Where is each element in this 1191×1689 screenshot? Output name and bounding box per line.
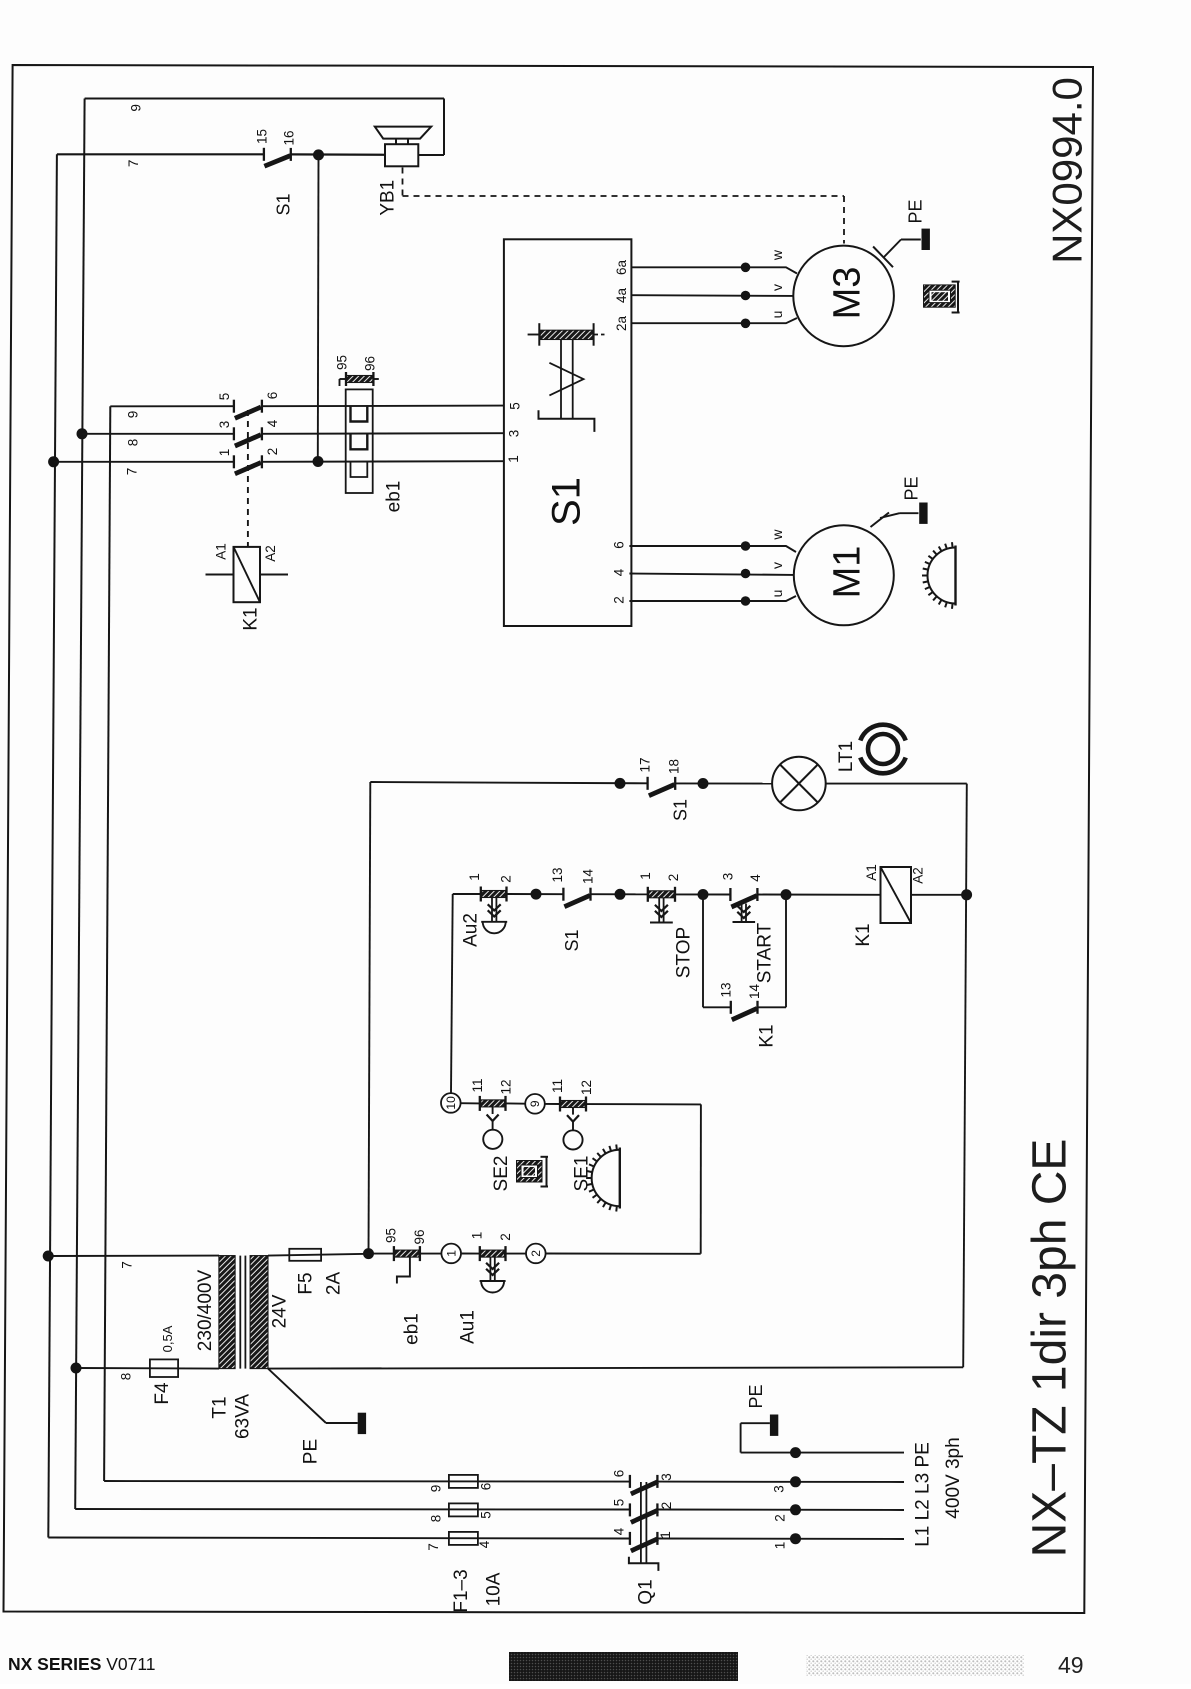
svg-text:9: 9 (129, 104, 144, 112)
wire 0V return (268, 1367, 963, 1368)
svg-text:9: 9 (528, 1100, 542, 1107)
svg-text:5: 5 (508, 402, 523, 410)
wire 9 top run (85, 98, 444, 100)
svg-text:2: 2 (498, 1233, 513, 1241)
svg-text:95: 95 (384, 1228, 399, 1243)
svg-text:2: 2 (612, 596, 627, 604)
fuse F2 (449, 1503, 478, 1516)
overload eb1 contact 95-96 (340, 378, 347, 380)
fuse F4 (150, 1359, 178, 1377)
node K1 rung b (615, 889, 626, 900)
switch S1 15/16 (263, 148, 265, 161)
wire STOP to START (675, 893, 730, 895)
svg-text:18: 18 (667, 759, 682, 774)
svg-text:F5: F5 (296, 1272, 317, 1294)
limit switch SE2 (479, 1096, 481, 1111)
wire Au1 to 2 (506, 1253, 527, 1255)
svg-text:13: 13 (719, 982, 734, 997)
svg-text:1: 1 (467, 873, 482, 881)
dashed link YB1 to brake (402, 168, 404, 197)
svg-text:YB1: YB1 (377, 180, 398, 216)
svg-text:2A: 2A (324, 1272, 345, 1296)
svg-text:L1 L2 L3 PE: L1 L2 L3 PE (913, 1442, 934, 1547)
wire 24V rail (369, 782, 371, 1254)
wire 7 to T1 (48, 1255, 219, 1257)
svg-text:2a: 2a (614, 316, 629, 332)
svg-text:9: 9 (429, 1485, 444, 1493)
svg-text:16: 16 (282, 130, 297, 145)
wire to lamp (675, 782, 772, 784)
svg-text:Au1: Au1 (458, 1310, 479, 1344)
wire 4 to M1 (629, 574, 793, 575)
svg-text:11: 11 (470, 1078, 485, 1092)
svg-text:PE: PE (901, 476, 921, 500)
svg-text:9: 9 (126, 411, 141, 419)
wire rail 8 left (75, 99, 84, 1510)
svg-text:S1: S1 (273, 193, 293, 215)
fuse F5 (289, 1249, 321, 1261)
svg-text:S1: S1 (562, 929, 582, 951)
wire right rail (963, 784, 967, 1368)
svg-text:eb1: eb1 (384, 481, 405, 513)
switch S1 17/18 (646, 777, 648, 790)
node L-PE (790, 1447, 801, 1458)
svg-text:4: 4 (477, 1540, 492, 1548)
svg-text:PE: PE (746, 1384, 766, 1408)
svg-text:NX0994.0: NX0994.0 (1044, 77, 1091, 264)
svg-text:1: 1 (638, 872, 653, 880)
svg-text:2: 2 (265, 448, 280, 456)
svg-text:12: 12 (499, 1079, 514, 1094)
svg-text:7: 7 (125, 468, 140, 476)
svg-text:96: 96 (363, 356, 378, 371)
svg-text:63VA: 63VA (233, 1394, 254, 1439)
wire rail 9 left (104, 406, 110, 1481)
svg-text:K1: K1 (853, 923, 874, 946)
svg-text:STOP: STOP (674, 927, 695, 978)
svg-text:1: 1 (773, 1542, 788, 1550)
wire 2 to M1 (629, 596, 796, 601)
wire 9 row K1 to S1box (262, 405, 504, 408)
wire 7 row K1 to S1box (262, 460, 504, 463)
wire 9 bottom b (657, 1481, 904, 1483)
node 9 (525, 1094, 545, 1114)
pushbutton START (729, 888, 731, 901)
wire 2a to M3 (631, 318, 797, 323)
PE tick M3 (873, 247, 893, 268)
svg-text:M3: M3 (826, 267, 868, 320)
svg-text:13: 13 (550, 867, 565, 882)
node wire8 F4 (71, 1363, 82, 1374)
svg-text:K1: K1 (241, 607, 262, 630)
svg-text:400V 3ph: 400V 3ph (943, 1437, 964, 1518)
brake icon SE2 (517, 1161, 543, 1183)
wire rail 7 left (48, 154, 57, 1537)
svg-text:7: 7 (126, 160, 141, 168)
svg-text:NX SERIES V0711: NX SERIES V0711 (8, 1654, 156, 1674)
svg-text:10: 10 (444, 1096, 458, 1110)
switch Q1 pole 8 (629, 1503, 631, 1516)
wire 7 top run (57, 153, 264, 155)
svg-text:PE: PE (905, 199, 925, 223)
footer watermark (806, 1655, 1024, 1676)
fuse F3 (449, 1532, 478, 1545)
contact K1 aux 13/14 (730, 1001, 732, 1014)
svg-text:1: 1 (470, 1232, 485, 1240)
svg-text:230/400V: 230/400V (195, 1269, 216, 1351)
wire lamp to rail (826, 783, 967, 785)
svg-text:1: 1 (506, 455, 521, 463)
node after F5 (363, 1248, 374, 1259)
wire 10 to SE2 (461, 1102, 480, 1104)
fuse F1 (449, 1475, 478, 1488)
svg-text:NX–TZ 1dir 3ph CE: NX–TZ 1dir 3ph CE (1023, 1139, 1076, 1558)
wire corner drop (700, 1104, 702, 1253)
PE tick M1 (871, 513, 890, 528)
wire drop to YB1 (443, 99, 445, 156)
wire S1 to STOP (591, 893, 648, 895)
contactor K1 pole 1-2 (233, 455, 235, 468)
svg-text:5: 5 (217, 393, 232, 401)
contact eb1 aux 95/96 (393, 1246, 395, 1261)
svg-text:w: w (769, 529, 785, 541)
svg-text:S1: S1 (545, 477, 589, 526)
svg-text:0,5A: 0,5A (160, 1325, 175, 1352)
svg-text:96: 96 (412, 1229, 427, 1244)
motor M3 (793, 246, 894, 347)
wire SE1 to corner (586, 1103, 701, 1105)
wire 8 to T1 (76, 1367, 219, 1370)
svg-text:17: 17 (638, 757, 653, 772)
wire 2 to corner (546, 1253, 701, 1255)
svg-text:2: 2 (659, 1502, 674, 1510)
node L3 (790, 1476, 801, 1487)
transformer T1 (219, 1256, 235, 1369)
ground T1 (358, 1413, 366, 1434)
svg-text:10A: 10A (484, 1572, 505, 1606)
lamp LT1 (772, 757, 826, 811)
node M1 u (741, 596, 751, 606)
ground M1 PE (919, 503, 927, 524)
wire K1 aux return (758, 1006, 787, 1008)
switch Q1 pole 7 (629, 1532, 631, 1545)
footer dark block (509, 1652, 738, 1681)
ground M3 PE (922, 229, 930, 250)
svg-text:8: 8 (119, 1373, 134, 1381)
wire SE2 to 9 (506, 1102, 526, 1104)
brake icon M3 (924, 285, 956, 307)
wire 9 bottom (104, 1480, 630, 1483)
wire 8 bottom b (657, 1509, 904, 1512)
switch S1 13/14 (562, 888, 564, 901)
svg-text:14: 14 (581, 869, 596, 885)
wire PE bottom (741, 1452, 904, 1454)
node M3 u (741, 319, 751, 329)
svg-text:6: 6 (612, 1470, 627, 1478)
wire center drop (317, 155, 320, 462)
node M3 v (741, 291, 751, 301)
limit switch SE1 (559, 1097, 561, 1112)
wire 7 bottom (48, 1538, 630, 1539)
svg-text:F4: F4 (152, 1382, 173, 1405)
svg-text:2: 2 (499, 875, 514, 883)
svg-text:v: v (769, 284, 785, 291)
node center drop to 7 (313, 456, 324, 467)
svg-text:11: 11 (550, 1079, 565, 1093)
wire K1 aux branch (702, 895, 704, 1008)
node 2 (526, 1244, 546, 1264)
svg-text:Au2: Au2 (461, 913, 482, 947)
svg-text:49: 49 (1058, 1652, 1084, 1678)
svg-text:4: 4 (612, 1527, 627, 1535)
svg-text:4: 4 (748, 874, 763, 882)
wire 1 to Au1 (461, 1253, 480, 1255)
cam switch symbol (528, 334, 540, 336)
svg-text:3: 3 (721, 873, 736, 881)
node lamp rung a (615, 778, 626, 789)
pushbutton Au1 (479, 1246, 481, 1261)
coil K1 control (881, 867, 912, 923)
switch Q1 pole 9 (629, 1475, 631, 1488)
node 7 rail (48, 456, 59, 467)
ground supply PE (770, 1415, 778, 1436)
svg-text:3: 3 (217, 421, 232, 429)
svg-text:7: 7 (426, 1543, 441, 1551)
svg-text:2: 2 (666, 874, 681, 882)
contactor K1 pole 3-4 (233, 427, 235, 440)
node YB1 junction (313, 149, 324, 160)
dashed K1 linkage (247, 410, 249, 547)
wire 24V from T1 (268, 1254, 369, 1256)
svg-text:1: 1 (217, 449, 232, 457)
svg-text:6a: 6a (614, 260, 629, 276)
svg-text:T1: T1 (210, 1396, 231, 1418)
wire T1 PE (268, 1369, 326, 1423)
svg-text:w: w (769, 249, 785, 261)
wire 6 to M1 (629, 546, 796, 552)
fan icon M1 (954, 546, 956, 606)
svg-text:95: 95 (335, 355, 350, 370)
overload eb1 heater box (346, 389, 373, 493)
svg-text:4: 4 (612, 568, 627, 576)
wire 6a to M3 (631, 267, 797, 273)
node 10 (441, 1093, 461, 1113)
wire S1-16 to YB1 (291, 153, 385, 156)
svg-text:Q1: Q1 (636, 1579, 657, 1604)
node K1 rung c (698, 889, 709, 900)
svg-text:SE2: SE2 (491, 1156, 512, 1192)
node L1 (790, 1533, 801, 1544)
wire to eb1 aux (369, 1253, 394, 1255)
svg-text:4: 4 (265, 419, 280, 427)
svg-text:PE: PE (301, 1439, 322, 1464)
contactor K1 pole 5-6 (233, 400, 235, 413)
svg-text:3: 3 (659, 1473, 674, 1481)
svg-text:START: START (755, 922, 776, 983)
node 1 (441, 1244, 461, 1264)
svg-text:A1: A1 (214, 543, 229, 560)
lamp indicator icon (868, 734, 898, 764)
node L2 (790, 1504, 801, 1515)
svg-text:LT1: LT1 (836, 741, 857, 772)
svg-text:K1: K1 (757, 1024, 778, 1047)
wire 7 bottom b (657, 1538, 904, 1541)
svg-text:u: u (769, 590, 785, 598)
wire 4a to M3 (631, 294, 793, 297)
switch box S1 (504, 239, 632, 626)
svg-text:3: 3 (772, 1485, 787, 1493)
svg-text:2: 2 (529, 1250, 543, 1257)
svg-text:S1: S1 (670, 799, 690, 821)
svg-text:SE1: SE1 (572, 1156, 593, 1192)
wire coil to rail (911, 894, 967, 896)
wire eb1 to 1 (420, 1253, 442, 1255)
svg-text:2: 2 (773, 1514, 788, 1522)
svg-text:15: 15 (255, 129, 270, 144)
node M1 w (741, 541, 751, 551)
svg-text:24V: 24V (270, 1294, 291, 1328)
svg-text:1: 1 (658, 1531, 673, 1539)
svg-text:4a: 4a (614, 288, 629, 304)
horn YB1 (385, 144, 418, 166)
wire 8 bottom (75, 1508, 630, 1511)
node wire7 T1 (43, 1251, 54, 1262)
node lamp rung b (698, 778, 709, 789)
wire M3 PE (884, 240, 901, 258)
wire 7 row K1 (54, 461, 234, 463)
wire 8 row K1 to S1box (262, 432, 504, 435)
svg-text:6: 6 (612, 541, 627, 549)
svg-text:8: 8 (126, 439, 141, 447)
svg-text:7: 7 (120, 1261, 135, 1269)
svg-text:14: 14 (747, 984, 762, 1000)
wire 8 row K1 (82, 433, 234, 435)
wire START to coil (757, 894, 880, 896)
node K1 rung a (531, 889, 542, 900)
svg-text:v: v (769, 562, 785, 569)
fan icon SE1 (619, 1148, 621, 1209)
pushbutton STOP (647, 887, 649, 902)
pushbutton Au2 (480, 887, 482, 902)
svg-text:A2: A2 (263, 545, 278, 562)
svg-text:M1: M1 (826, 546, 868, 599)
svg-text:5: 5 (479, 1511, 494, 1519)
wire K1 rung start (453, 893, 481, 895)
svg-text:6: 6 (265, 392, 280, 400)
svg-text:3: 3 (507, 430, 522, 438)
wire drop to node 10 (451, 894, 453, 1093)
svg-text:A1: A1 (864, 864, 879, 881)
svg-text:12: 12 (579, 1080, 594, 1095)
svg-text:F1–3: F1–3 (451, 1569, 472, 1612)
svg-text:5: 5 (612, 1499, 627, 1507)
Q1 linkage (640, 1482, 642, 1563)
svg-text:eb1: eb1 (402, 1313, 423, 1345)
coil K1 main (234, 547, 261, 602)
node 8 rail (77, 428, 88, 439)
wire 9 to SE1 (545, 1103, 560, 1105)
wire 9 row K1 (110, 405, 234, 407)
wire lamp rung left (370, 782, 647, 783)
node M1 v (741, 569, 751, 579)
motor M1 (794, 525, 894, 625)
svg-text:A2: A2 (911, 867, 926, 884)
node M3 w (741, 263, 751, 273)
svg-text:8: 8 (429, 1515, 444, 1523)
node K1 rung d (781, 889, 792, 900)
wire M1 PE (880, 513, 900, 518)
svg-text:6: 6 (479, 1483, 494, 1491)
wire Au2 to S1 (507, 893, 564, 895)
svg-text:u: u (769, 311, 785, 319)
node rail K1 (961, 889, 972, 900)
svg-text:1: 1 (444, 1250, 458, 1257)
